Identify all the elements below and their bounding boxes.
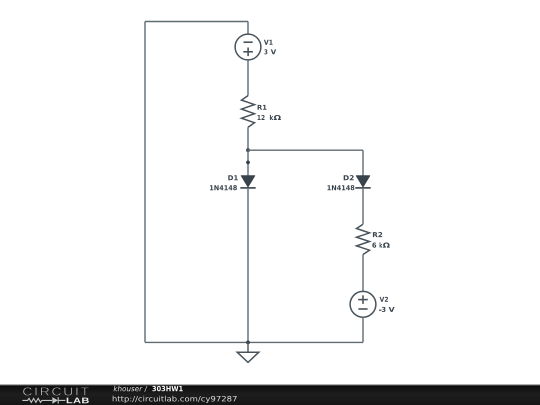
logo text LAB <box>67 398 89 404</box>
wire D1 to bottom <box>247 188 249 343</box>
logo resistor-diode symbol <box>22 397 65 403</box>
wire V2 to bottom <box>362 317 364 343</box>
diode D1 <box>240 176 255 188</box>
wire left vertical <box>144 22 146 343</box>
node ground junction dot <box>246 341 250 345</box>
node dot D1 anode <box>246 161 250 165</box>
wire V1 to R1 <box>247 60 249 96</box>
wire D2 to R2 <box>362 188 364 224</box>
bottom credit bar <box>0 384 540 386</box>
logo diode triangle <box>52 397 58 404</box>
label V1 value <box>264 49 276 54</box>
label V1 name <box>264 40 273 45</box>
label D2 value <box>328 185 355 190</box>
label R1 value <box>258 115 281 120</box>
wire junction to D1 <box>247 150 249 176</box>
wire bottom horizontal <box>145 341 363 343</box>
credit url <box>113 396 237 403</box>
wire R2 to V2 <box>362 255 364 292</box>
voltage source V2 <box>350 291 376 317</box>
label D1 value <box>210 185 237 190</box>
resistor R1 <box>242 96 255 128</box>
wire R1 to junction <box>247 127 249 150</box>
wire D2 branch stub <box>362 150 364 176</box>
label D1 name <box>228 175 238 180</box>
credit title 303HW1 <box>152 386 182 391</box>
credit author khouser <box>114 386 143 392</box>
label V2 name <box>380 297 388 302</box>
label R2 value <box>372 242 390 247</box>
voltage source V1 <box>235 34 261 60</box>
wire top horizontal <box>145 21 248 23</box>
resistor R2 <box>357 224 370 254</box>
wire V1 top stub <box>247 22 249 35</box>
label V2 value <box>379 307 395 312</box>
label R1 name <box>258 105 267 110</box>
logo text CIRCUIT <box>23 387 89 395</box>
wire junction to D2 branch <box>248 149 363 151</box>
node junction dot <box>246 148 250 152</box>
credit separator slash <box>144 386 147 392</box>
ground <box>237 342 259 362</box>
label R2 name <box>373 232 382 237</box>
diode D2 <box>355 176 370 188</box>
label D2 name <box>344 175 354 180</box>
